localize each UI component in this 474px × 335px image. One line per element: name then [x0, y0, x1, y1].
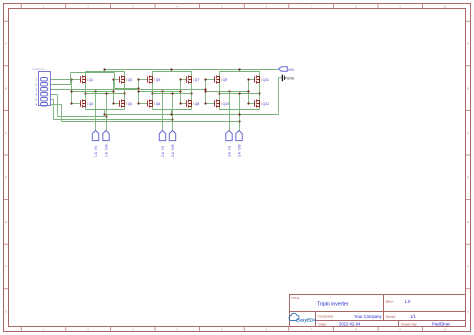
svg-text:C: C [5, 131, 7, 135]
svg-text:Sheet:: Sheet: [386, 315, 396, 319]
wire IN1 (pin1 to block1 gates) [51, 79, 72, 81]
wire gate tie column 1 [70, 78, 80, 104]
transistor Q2 [81, 99, 94, 107]
wire IN2 (pin2 to block2 gates) [51, 73, 140, 90]
wire net flag riser 3B [238, 92, 240, 130]
svg-text:G: G [467, 309, 469, 313]
svg-text:Q2: Q2 [89, 102, 94, 106]
svg-text:A: A [467, 42, 469, 46]
wire column 1 drain-source [84, 72, 86, 110]
wire net flag riser 2A [162, 92, 164, 131]
wire output link block 1 [86, 93, 125, 95]
svg-text:E: E [5, 220, 7, 224]
svg-text:10: 10 [443, 5, 447, 9]
wire net flag riser 1A [95, 92, 97, 131]
svg-text:TITLE:: TITLE: [291, 296, 300, 300]
wire gate tie column 2 [112, 78, 119, 104]
wire OUT3 (pin6 bus) [51, 105, 240, 122]
svg-text:Q7: Q7 [195, 78, 200, 82]
wire output link block 2 [153, 93, 192, 95]
wire VIN rail [86, 68, 278, 71]
svg-text:Q3: Q3 [128, 78, 133, 82]
svg-text:1A OB: 1A OB [104, 144, 108, 157]
wire gate cross block 3 [204, 90, 249, 92]
connector J1 [36, 72, 51, 107]
transistor Q9 [215, 75, 228, 83]
ground GND [282, 75, 294, 82]
wire net flag riser 2B [171, 92, 173, 130]
net flag 1A OB [103, 131, 109, 158]
transistor Q10 [215, 99, 230, 107]
net flag 2A OB [169, 131, 175, 158]
wire net flag riser 1B [105, 92, 107, 130]
svg-text:2022-02-04: 2022-02-04 [339, 322, 361, 327]
transistor Q8 [187, 99, 200, 107]
wire OUT1 (pin4 bus) [51, 95, 107, 117]
svg-text:Q8: Q8 [195, 102, 200, 106]
svg-text:Company:: Company: [318, 315, 334, 319]
svg-text:Q1: Q1 [89, 78, 94, 82]
svg-text:D: D [5, 176, 7, 180]
wire gate tie column 3 [137, 78, 147, 104]
svg-text:1.0: 1.0 [405, 299, 411, 304]
wire gate cross block 1 [70, 90, 114, 92]
svg-text:VIN: VIN [288, 68, 294, 72]
svg-text:Q11: Q11 [263, 78, 269, 82]
transistor Q7 [187, 75, 200, 83]
svg-text:G: G [5, 309, 7, 313]
wire GND bus [86, 78, 282, 116]
svg-text:Q10: Q10 [223, 102, 230, 106]
svg-text:B: B [5, 86, 7, 90]
wire IN3 (pin3 to block3 gates) [51, 88, 207, 90]
svg-text:Q5: Q5 [156, 78, 161, 82]
svg-text:Q6: Q6 [156, 102, 161, 106]
svg-text:A: A [5, 42, 7, 46]
svg-text:EasyEDA: EasyEDA [296, 317, 316, 322]
wire column 5 drain-source [218, 72, 220, 110]
transistor Q4 [120, 99, 133, 107]
connector J1 part label [33, 67, 45, 71]
wire gate tie column 6 [247, 78, 254, 104]
power flag VIN [278, 67, 294, 72]
wire gate tie column 4 [179, 78, 186, 104]
svg-text:Triplo inverter: Triplo inverter [317, 302, 349, 308]
svg-text:10: 10 [443, 328, 447, 332]
transistor Q12 [255, 99, 270, 107]
svg-text:F: F [5, 265, 7, 269]
wire column 6 drain-source [258, 72, 260, 110]
svg-text:D: D [467, 176, 469, 180]
svg-text:Drawn By:: Drawn By: [401, 323, 418, 327]
svg-text:F: F [467, 265, 469, 269]
transistor Q6 [148, 99, 161, 107]
wire column 2 drain-source [123, 72, 125, 110]
svg-text:Q4: Q4 [128, 102, 133, 106]
wire OUT2 (pin5 bus) [51, 100, 173, 120]
wire gate tie column 5 [204, 78, 214, 104]
svg-text:Q9: Q9 [223, 78, 228, 82]
wire column 4 drain-source [190, 72, 192, 110]
net flag 1A IN [92, 131, 98, 158]
svg-text:GND: GND [287, 76, 295, 80]
transistor Q1 [81, 75, 94, 83]
svg-text:Date:: Date: [319, 323, 328, 327]
transistor Q5 [148, 75, 161, 83]
svg-text:1/1: 1/1 [410, 314, 416, 319]
svg-text:E: E [467, 220, 469, 224]
svg-text:Q12: Q12 [263, 102, 270, 106]
wire output link block 3 [220, 93, 260, 95]
svg-text:PaulDirac: PaulDirac [432, 322, 450, 327]
svg-text:3A IN: 3A IN [227, 145, 231, 157]
svg-text:B: B [467, 86, 469, 90]
svg-text:2A IN: 2A IN [161, 145, 165, 157]
wire net flag riser 3A [229, 92, 231, 131]
transistor Q3 [120, 75, 133, 83]
net flag 3A OB [236, 131, 242, 158]
svg-text:REV:: REV: [386, 300, 394, 304]
svg-text:2A OB: 2A OB [171, 144, 175, 157]
svg-text:3A OB: 3A OB [237, 144, 241, 157]
wire gate cross block 2 [137, 90, 181, 92]
svg-text:Your Company: Your Company [354, 314, 382, 319]
net flag 2A IN [159, 131, 165, 158]
svg-text:Header-F: Header-F [33, 67, 45, 71]
wire column 3 drain-source [151, 72, 153, 110]
net flag 3A IN [226, 131, 232, 158]
svg-text:C: C [467, 131, 469, 135]
transistor Q11 [255, 75, 269, 83]
svg-text:1A IN: 1A IN [94, 145, 98, 157]
